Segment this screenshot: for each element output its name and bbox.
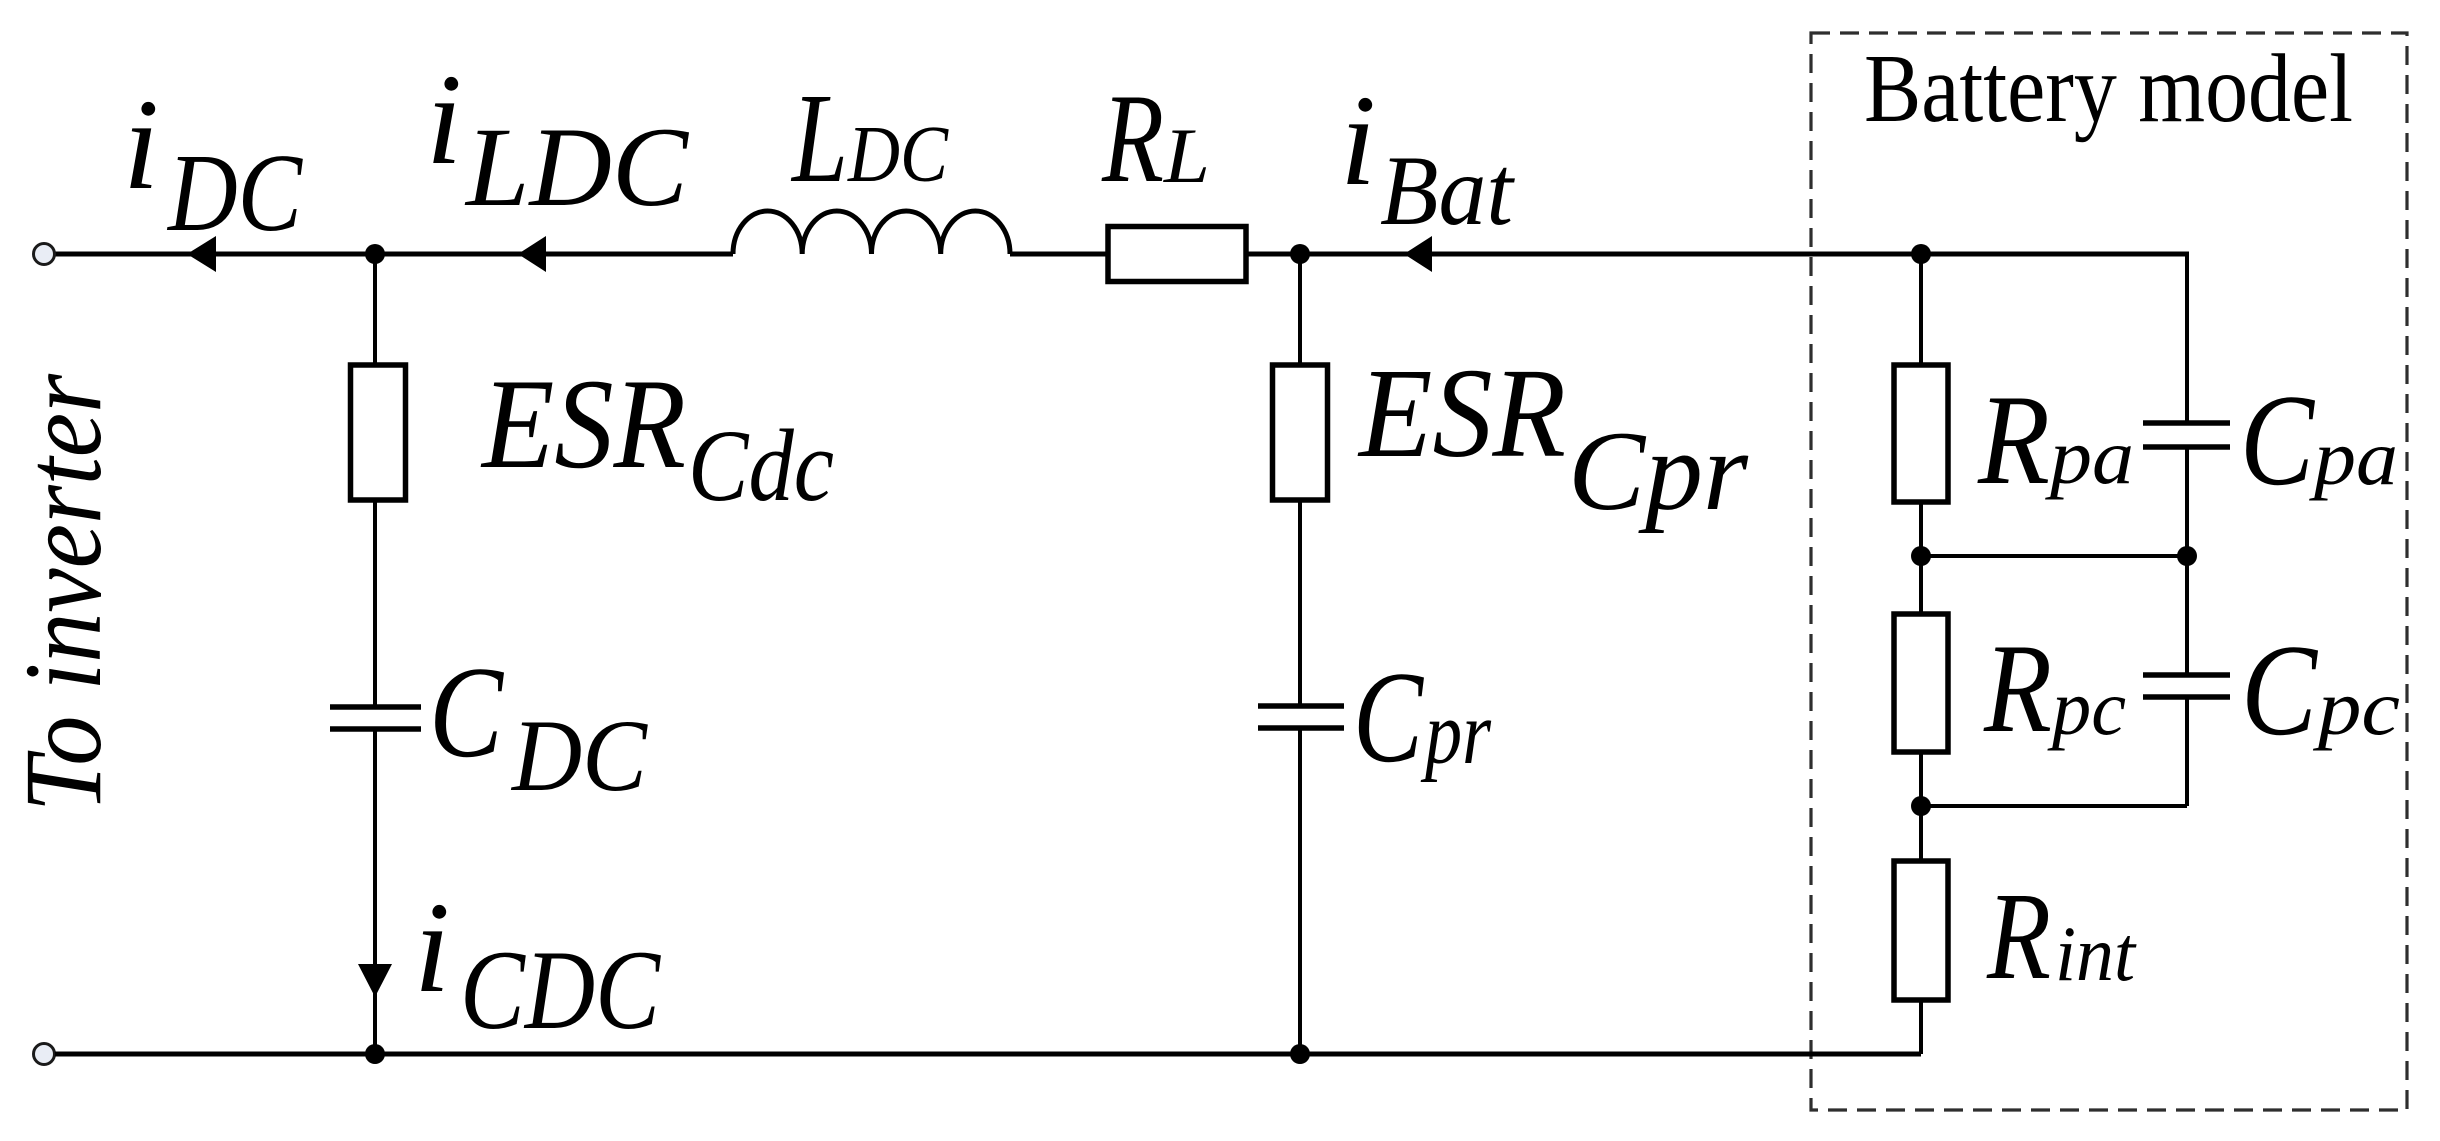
label iDC xyxy=(123,73,304,255)
wire row1 to Rpc xyxy=(1919,556,1923,614)
wire Rpc to junction row2 xyxy=(1919,752,1923,806)
svg-text:R: R xyxy=(1101,69,1164,209)
node 1 bottom xyxy=(365,1044,385,1064)
resistor Rpa box xyxy=(1894,365,1948,502)
label CDC xyxy=(429,640,648,813)
svg-text:Cpr: Cpr xyxy=(1568,409,1749,534)
wire node1 down xyxy=(373,254,377,365)
arrow iBat left xyxy=(1404,236,1432,272)
svg-text:R: R xyxy=(1977,368,2050,511)
wire inductor to RL xyxy=(1010,252,1108,257)
label Cpr xyxy=(1353,645,1492,790)
wire row1 to Cpc xyxy=(2185,556,2189,673)
node 2 bottom xyxy=(1290,1044,1310,1064)
svg-text:pc: pc xyxy=(2312,664,2400,751)
svg-text:L: L xyxy=(790,67,848,209)
svg-text:C: C xyxy=(2240,368,2315,513)
wire CDC to bottom rail xyxy=(373,732,377,1055)
label Rpc xyxy=(1983,619,2126,759)
svg-text:LDC: LDC xyxy=(464,105,690,230)
svg-text:L: L xyxy=(1163,112,1210,199)
capacitor CDC xyxy=(330,707,421,729)
arrow iDC left xyxy=(187,236,216,272)
svg-text:R: R xyxy=(1986,868,2051,1006)
svg-text:ESR: ESR xyxy=(480,352,686,495)
svg-text:CDC: CDC xyxy=(460,928,661,1053)
wire Cpa to junction row1 xyxy=(2185,449,2189,556)
label RL xyxy=(1101,69,1210,209)
svg-text:C: C xyxy=(1353,645,1424,790)
resistor Rpc box xyxy=(1894,614,1948,752)
wire RL to battery corner xyxy=(1246,252,2187,257)
wire Cpr to bottom rail xyxy=(1298,731,1302,1055)
wire row2 to Rint xyxy=(1919,806,1923,861)
svg-text:Cdc: Cdc xyxy=(688,409,834,523)
svg-text:i: i xyxy=(1340,69,1376,213)
svg-text:R: R xyxy=(1983,619,2052,759)
svg-text:DC: DC xyxy=(510,699,648,813)
svg-text:DC: DC xyxy=(847,111,949,199)
battery model dashed box xyxy=(1811,33,2407,1110)
wire corner to Cpa xyxy=(2185,252,2189,426)
svg-text:pc: pc xyxy=(2047,664,2126,751)
wire Rpa to junction row1 xyxy=(1919,502,1923,556)
wire Cpc down to row2 corner xyxy=(2185,699,2189,806)
label Cpc xyxy=(2241,618,2400,763)
label iLDC xyxy=(426,48,690,230)
node row1 right xyxy=(2177,546,2197,566)
label ESR_Cpr xyxy=(1357,342,1749,534)
wire junction row1 xyxy=(1921,554,2187,558)
arrow iLDC left xyxy=(518,236,546,272)
label Rpa xyxy=(1977,368,2134,511)
wire top rail left segment xyxy=(55,252,733,257)
svg-text:i: i xyxy=(123,73,159,217)
svg-text:i: i xyxy=(414,876,450,1020)
svg-text:pa: pa xyxy=(2309,414,2398,501)
wire junction row2 xyxy=(1921,804,2187,808)
capacitor Cpa xyxy=(2143,423,2230,447)
bottom rail xyxy=(55,1052,1921,1057)
node 1 top xyxy=(365,244,385,264)
wire ESR_Cdc to CDC xyxy=(373,500,377,705)
svg-text:Battery model: Battery model xyxy=(1864,35,2353,142)
svg-text:int: int xyxy=(2055,910,2137,997)
svg-text:pr: pr xyxy=(1420,684,1492,783)
node battery top xyxy=(1911,244,1931,264)
wire Rint to bottom rail xyxy=(1919,1000,1923,1054)
resistor ESR_Cpr box xyxy=(1273,365,1328,500)
label iCDC xyxy=(414,876,661,1053)
capacitor Cpr xyxy=(1258,706,1344,728)
svg-text:To inverter: To inverter xyxy=(2,373,124,812)
svg-text:pa: pa xyxy=(2045,413,2134,500)
terminal bottom-left xyxy=(34,1044,55,1065)
svg-text:DC: DC xyxy=(166,132,303,255)
label Rint xyxy=(1986,868,2137,1006)
svg-text:C: C xyxy=(429,640,504,785)
label iBat xyxy=(1340,69,1515,246)
resistor ESR_Cdc box xyxy=(351,365,406,500)
wire ESR_Cpr to Cpr xyxy=(1298,500,1302,704)
svg-text:ESR: ESR xyxy=(1357,342,1566,484)
resistor RL box xyxy=(1108,227,1246,282)
node row1 left xyxy=(1911,546,1931,566)
wire battery node down to Rpa xyxy=(1919,254,1923,365)
label ESR_Cdc xyxy=(480,352,834,523)
capacitor Cpc xyxy=(2143,675,2230,697)
node row2 xyxy=(1911,796,1931,816)
resistor Rint box xyxy=(1894,861,1948,1000)
label LDC xyxy=(790,67,949,209)
wire node2 down xyxy=(1298,254,1302,365)
inductor LDC xyxy=(733,211,1010,254)
label Cpa xyxy=(2240,368,2398,513)
svg-text:C: C xyxy=(2241,618,2318,763)
node 2 top xyxy=(1290,244,1310,264)
svg-text:Bat: Bat xyxy=(1380,135,1515,246)
terminal top-left xyxy=(34,244,55,265)
svg-text:i: i xyxy=(426,48,462,192)
arrow iCDC down xyxy=(358,964,392,997)
